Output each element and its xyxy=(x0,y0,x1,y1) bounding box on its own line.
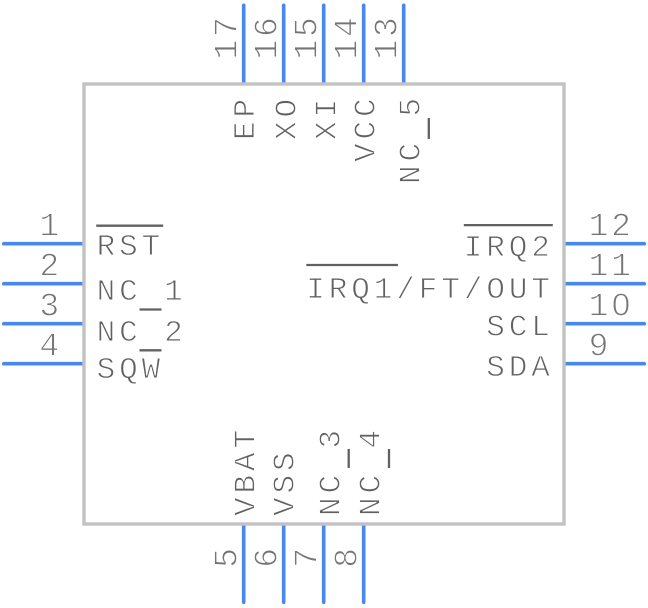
mask dot of zero in pin 10 xyxy=(618,301,625,309)
svg-text:VBAT: VBAT xyxy=(230,426,265,516)
svg-text:8: 8 xyxy=(330,545,367,568)
underscore of NC_1 xyxy=(140,308,162,310)
svg-text:13: 13 xyxy=(370,14,407,59)
pin 2 wire (NC_1) xyxy=(4,282,84,286)
pin 7 wire (NC_3) xyxy=(322,524,326,602)
svg-text:12: 12 xyxy=(589,209,634,246)
pin 3 wire (NC_2) xyxy=(4,322,84,326)
svg-text:1: 1 xyxy=(39,209,62,246)
pin 12 wire (IRQ2) xyxy=(564,242,644,246)
svg-text:9: 9 xyxy=(589,329,612,366)
svg-text:11: 11 xyxy=(589,249,634,286)
svg-text:15: 15 xyxy=(290,14,327,59)
svg-text:SQW: SQW xyxy=(97,353,165,388)
underscore of NC_5 xyxy=(428,118,430,139)
svg-text:14: 14 xyxy=(330,14,367,59)
pin 13 wire (NC_5) xyxy=(402,5,406,84)
svg-text:NC 3: NC 3 xyxy=(314,426,349,516)
svg-text:NC 4: NC 4 xyxy=(355,426,390,516)
pin 11 wire (IRQ1/FT/OUT) xyxy=(564,282,644,286)
pin 6 wire (VSS) xyxy=(282,524,286,602)
svg-text:17: 17 xyxy=(210,14,247,59)
svg-text:NC 2: NC 2 xyxy=(97,316,187,351)
IC body U1 xyxy=(84,84,564,524)
svg-text:XO: XO xyxy=(271,95,306,140)
svg-text:NC 1: NC 1 xyxy=(97,275,187,310)
pin 17 wire (EP) xyxy=(242,5,246,84)
overline IRQ1 xyxy=(306,264,398,266)
overline RST xyxy=(96,225,163,227)
pin 1 wire (RST) xyxy=(4,242,84,246)
svg-text:VSS: VSS xyxy=(269,448,304,516)
svg-text:7: 7 xyxy=(290,545,327,568)
pin 14 wire (VCC) xyxy=(362,5,366,84)
svg-text:IRQ2: IRQ2 xyxy=(464,231,554,266)
svg-text:IRQ1/FT/OUT: IRQ1/FT/OUT xyxy=(306,273,554,308)
svg-text:5: 5 xyxy=(210,545,247,568)
pin 16 wire (XO) xyxy=(282,5,286,84)
pin 5 wire (VBAT) xyxy=(242,524,246,602)
pin 15 wire (XI) xyxy=(322,5,326,84)
pin 4 wire (SQW) xyxy=(4,362,84,366)
pin 8 wire (NC_4) xyxy=(362,524,366,602)
svg-text:VCC: VCC xyxy=(350,94,385,162)
underscore of NC_4 xyxy=(388,449,390,468)
svg-text:SCL: SCL xyxy=(486,311,554,346)
svg-text:16: 16 xyxy=(250,14,287,59)
svg-text:4: 4 xyxy=(39,329,62,366)
overline IRQ2 xyxy=(464,224,553,226)
svg-text:6: 6 xyxy=(250,545,287,568)
svg-text:SDA: SDA xyxy=(486,351,554,386)
svg-text:2: 2 xyxy=(39,249,62,286)
svg-text:RST: RST xyxy=(97,230,165,265)
svg-text:3: 3 xyxy=(39,289,62,326)
underscore of NC_3 xyxy=(348,449,350,468)
svg-text:EP: EP xyxy=(229,95,264,140)
pin 9 wire (SDA) xyxy=(564,362,644,366)
underscore of NC_2 xyxy=(140,349,162,351)
svg-text:10: 10 xyxy=(589,289,634,326)
pin 10 wire (SCL) xyxy=(564,322,644,326)
svg-text:XI: XI xyxy=(311,95,346,140)
svg-text:NC 5: NC 5 xyxy=(395,94,430,184)
